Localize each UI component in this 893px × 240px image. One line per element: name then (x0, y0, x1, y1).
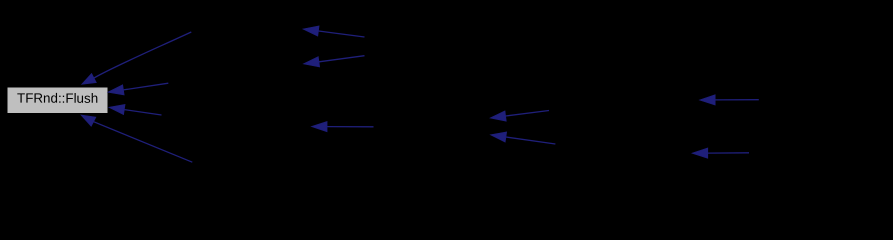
edge caller1->TFRnd::Flush (curve into box top) (82, 32, 192, 84)
edge level4a->level3 (upper arrow) (490, 111, 549, 122)
edge level4b->level3 (lower arrow) (490, 132, 555, 144)
edge level3a->caller (upper middle arrow) (303, 26, 365, 37)
edge level5a->level4 (upper right horizontal arrow) (699, 95, 758, 105)
edge level5b->level4 (lower right horizontal arrow) (692, 148, 749, 158)
node TFRnd::Flush (grey box) (7, 87, 108, 114)
edge caller4->TFRnd::Flush (curve into box bottom) (81, 115, 193, 162)
svg-text:TFRnd::Flush: TFRnd::Flush (17, 91, 98, 106)
edge level3c->caller (horizontal middle arrow) (311, 121, 373, 131)
edge level3b->caller (lower middle arrow) (303, 56, 364, 67)
edge caller3->TFRnd::Flush (lower right arrow) (109, 104, 162, 115)
edge caller2->TFRnd::Flush (upper right arrow) (108, 83, 169, 95)
